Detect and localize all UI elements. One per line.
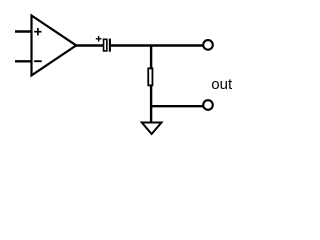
svg-text:out: out	[211, 76, 233, 93]
